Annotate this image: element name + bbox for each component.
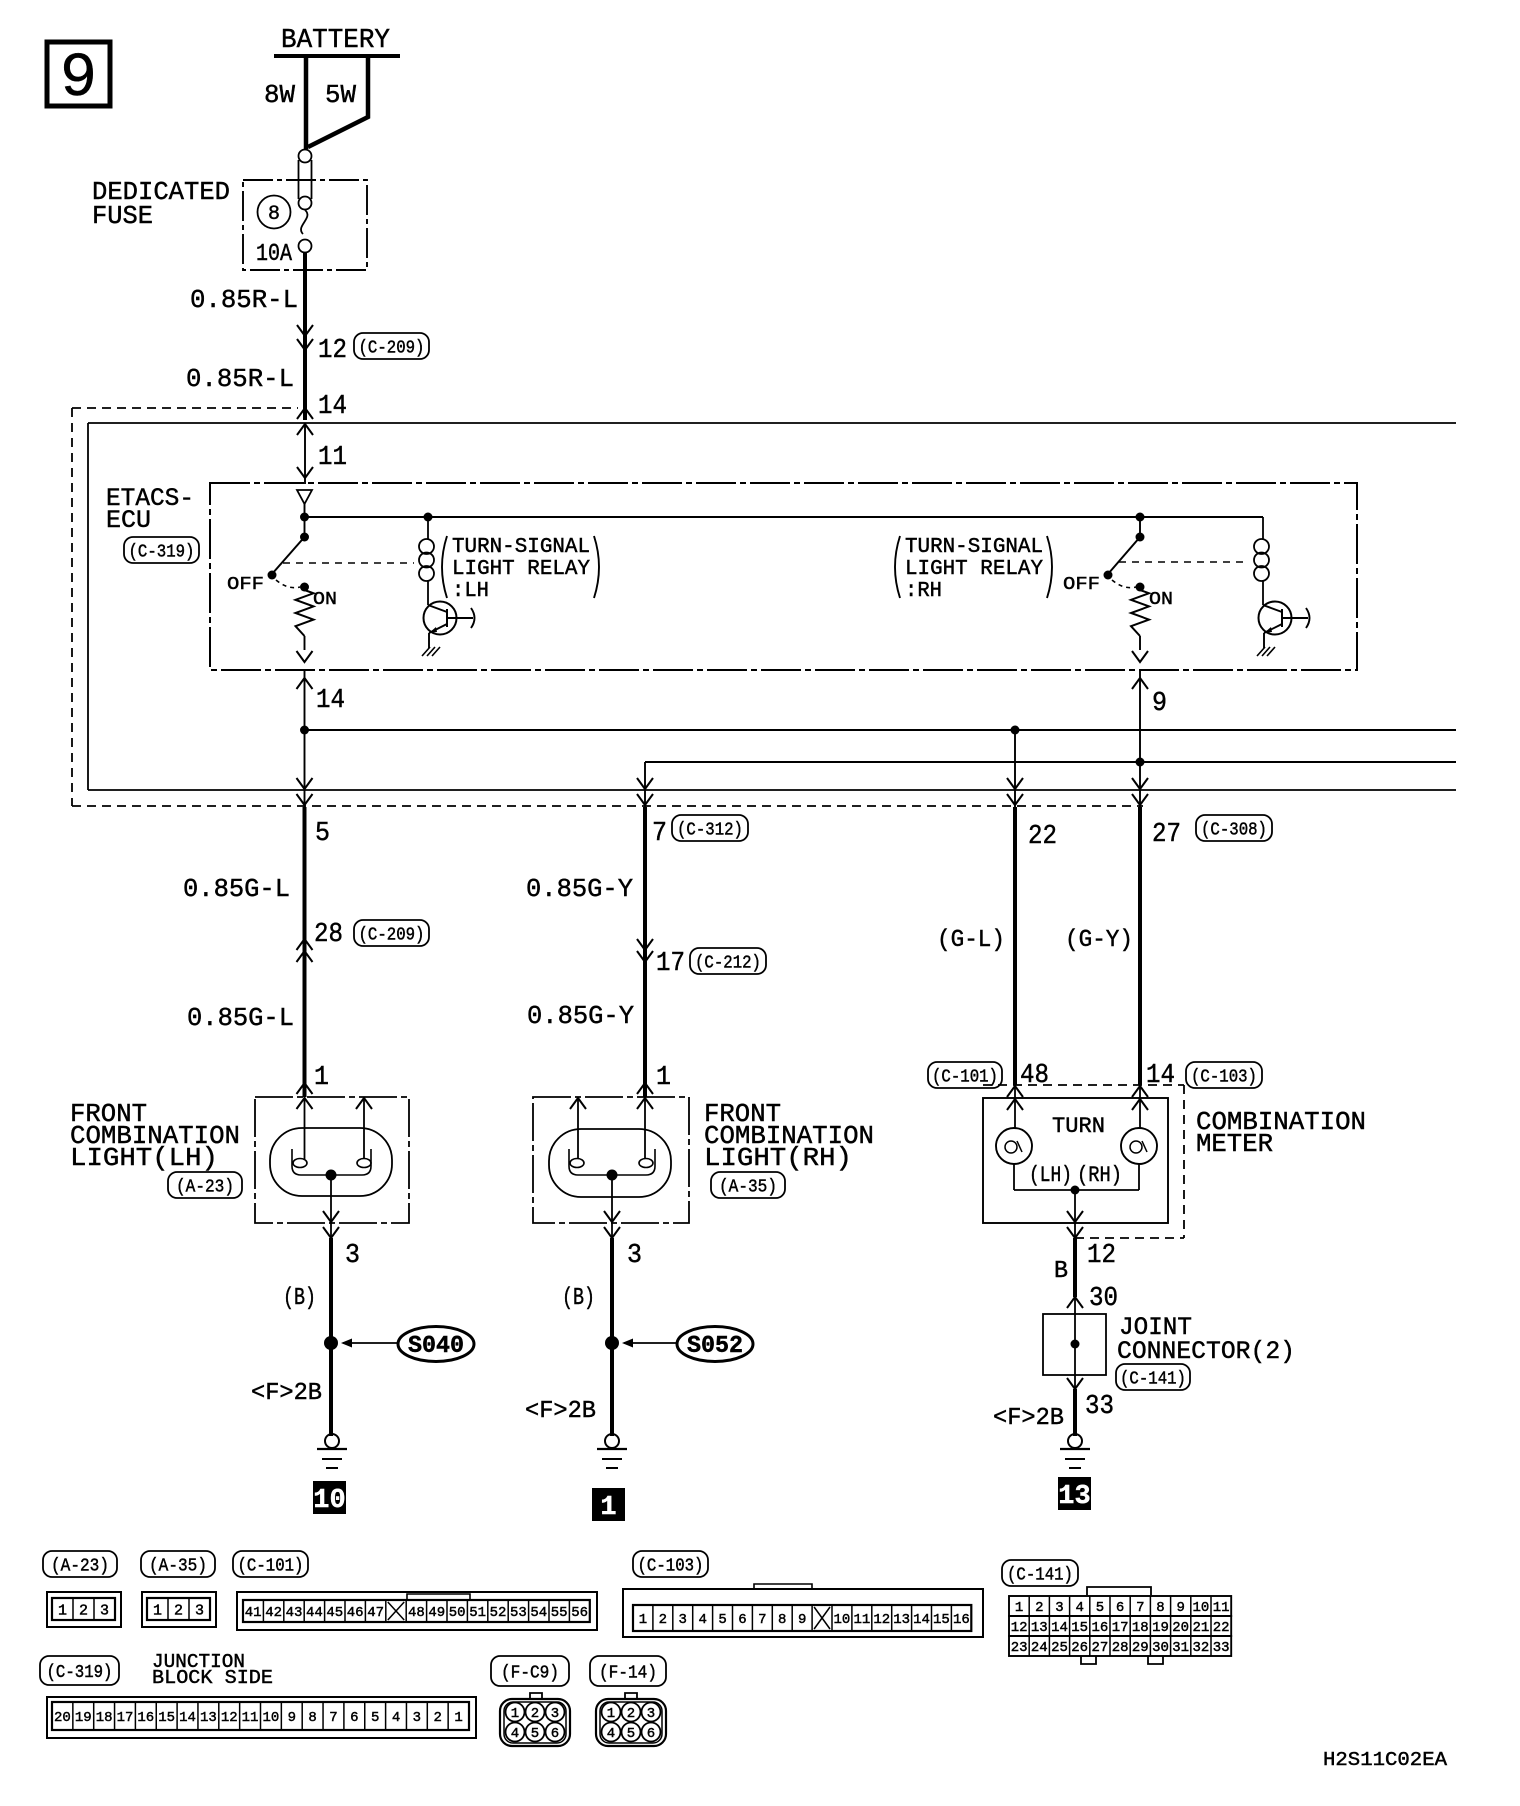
connector label C-319 <box>124 537 199 563</box>
transistor Q LH <box>424 602 475 635</box>
arrow into LH light <box>297 1083 313 1094</box>
wire drop to pin 5 <box>297 730 313 807</box>
wire (B) LH ground lead <box>329 1238 333 1436</box>
svg-text:7: 7 <box>652 819 667 849</box>
label (F)2B RH <box>525 1398 596 1425</box>
svg-text:TURN-SIGNAL: TURN-SIGNAL <box>452 536 590 559</box>
svg-text:12: 12 <box>873 1612 890 1628</box>
svg-text:9: 9 <box>288 1710 296 1726</box>
connector label F-14 <box>590 1656 666 1686</box>
pin 28 <box>314 920 343 950</box>
svg-text:45: 45 <box>326 1605 343 1621</box>
svg-text:B: B <box>1054 1258 1068 1285</box>
label ETACS-ECU <box>106 484 194 535</box>
svg-text:FUSE: FUSE <box>92 201 153 231</box>
svg-text:0.85G-Y: 0.85G-Y <box>526 874 633 904</box>
pin 12 <box>318 336 347 366</box>
svg-text:51: 51 <box>469 1605 486 1621</box>
svg-text:(C-141): (C-141) <box>1120 1369 1186 1389</box>
svg-text:5: 5 <box>627 1726 635 1742</box>
connector view A-35 <box>142 1592 216 1627</box>
wire emitter to ground LH <box>428 633 430 648</box>
relay coil LH <box>427 516 429 518</box>
label TURN-SIGNAL LIGHT RELAY RH <box>895 536 1052 603</box>
svg-text:4: 4 <box>392 1710 400 1726</box>
internal ground RH <box>1257 647 1265 656</box>
fuse element <box>299 150 312 253</box>
connector label A-23 bottom <box>43 1551 117 1577</box>
connector label C-308 <box>1196 815 1272 841</box>
svg-text:29: 29 <box>1132 1640 1149 1656</box>
wire lamp RH to pin 3 <box>604 1175 620 1240</box>
label OFF RH <box>1063 575 1100 595</box>
svg-text:OFF: OFF <box>1063 575 1100 595</box>
bus wire 1 <box>305 729 1457 731</box>
arrows into meter pin 14 <box>1132 1085 1148 1128</box>
svg-text:1: 1 <box>607 1706 615 1722</box>
fuse box <box>243 180 367 270</box>
ETACS pin 11 entry triangle <box>297 490 312 504</box>
connector view C-101 <box>237 1592 597 1630</box>
svg-text:5: 5 <box>1096 1600 1104 1616</box>
label (B) RH <box>562 1285 595 1312</box>
svg-text:12: 12 <box>1087 1241 1116 1271</box>
svg-text:14: 14 <box>179 1710 196 1726</box>
svg-text:(C-209): (C-209) <box>359 925 425 945</box>
label (G-L) <box>937 927 1005 954</box>
label 0.85G-L upper <box>183 874 290 904</box>
svg-text:24: 24 <box>1031 1640 1048 1656</box>
svg-text:(C-319): (C-319) <box>47 1663 113 1683</box>
pin 11 ETACS in <box>318 443 347 473</box>
svg-text:54: 54 <box>530 1605 547 1621</box>
dashed actuation link RH <box>1119 561 1249 563</box>
connector label C-209 lower <box>354 920 429 946</box>
svg-text:9: 9 <box>60 43 97 114</box>
pin 30 <box>1089 1284 1118 1314</box>
pin 5 <box>315 819 330 849</box>
resistor LH <box>296 590 314 636</box>
svg-text:9: 9 <box>798 1612 806 1628</box>
ETACS-ECU box C-319 <box>210 483 1357 670</box>
svg-text:LIGHT(RH): LIGHT(RH) <box>704 1143 852 1173</box>
pin 9 ETACS out <box>1152 689 1167 719</box>
label TURN-SIGNAL LIGHT RELAY LH <box>442 536 599 603</box>
svg-text:12: 12 <box>1011 1620 1028 1636</box>
svg-text:28: 28 <box>1112 1640 1129 1656</box>
node ON LH <box>300 583 309 592</box>
pin 14 ETACS out <box>316 686 345 716</box>
svg-text:53: 53 <box>510 1605 527 1621</box>
svg-text:3: 3 <box>413 1710 421 1726</box>
label JOINT CONNECTOR (2) <box>1117 1313 1295 1366</box>
svg-text:LIGHT RELAY: LIGHT RELAY <box>452 558 590 581</box>
label B <box>1054 1258 1068 1285</box>
switch RH arm <box>1104 517 1145 580</box>
pin 14 junction block in <box>318 392 347 422</box>
connector view C-103 <box>623 1584 983 1637</box>
lamp bulb RH <box>549 1129 671 1197</box>
svg-text:3: 3 <box>647 1706 655 1722</box>
bus wire 2 <box>645 761 1456 763</box>
ETACS pin 14 exit arrow <box>297 670 313 730</box>
svg-text:9: 9 <box>1152 689 1167 719</box>
pin 27 <box>1152 820 1181 850</box>
connector label F-09 <box>491 1656 569 1686</box>
svg-text:(A-35): (A-35) <box>719 1177 777 1197</box>
svg-text:7: 7 <box>1136 1600 1144 1616</box>
label 0.85G-Y upper <box>526 874 633 904</box>
battery B+ label <box>281 26 390 56</box>
svg-text:6: 6 <box>647 1726 655 1742</box>
node: switch LH common <box>300 504 309 522</box>
junction block dashed outline <box>72 408 1143 806</box>
label (F)2B LH <box>251 1380 322 1407</box>
svg-text:6: 6 <box>350 1710 358 1726</box>
svg-text:33: 33 <box>1213 1640 1230 1656</box>
wire drop to pin 22 <box>1007 730 1023 807</box>
wire battery leg 8W <box>304 56 309 149</box>
svg-text:10: 10 <box>1192 1600 1209 1616</box>
svg-text:3: 3 <box>551 1706 559 1722</box>
svg-text:(C-212): (C-212) <box>695 953 761 973</box>
connector label C-212 <box>690 948 766 974</box>
connector label C-319 bottom <box>40 1656 119 1685</box>
svg-text:1: 1 <box>314 1063 329 1093</box>
wire lamp LH to pin 3 <box>323 1175 339 1240</box>
wire (G-L) <box>1013 807 1017 1085</box>
connector label C-103 bottom <box>633 1551 708 1577</box>
svg-text:2: 2 <box>79 1602 88 1619</box>
svg-text:0.85G-Y: 0.85G-Y <box>527 1001 634 1031</box>
svg-text:0.85G-L: 0.85G-L <box>187 1003 294 1033</box>
svg-text:48: 48 <box>1020 1061 1049 1091</box>
splice node S052 <box>605 1336 619 1350</box>
relay coil RH <box>1262 516 1264 518</box>
svg-text:LIGHT RELAY: LIGHT RELAY <box>905 558 1043 581</box>
connector label A-23 <box>168 1172 242 1198</box>
svg-text:<F>2B: <F>2B <box>993 1405 1064 1432</box>
svg-text:2: 2 <box>1035 1600 1043 1616</box>
svg-text:(A-23): (A-23) <box>51 1556 109 1576</box>
connector view A-23 <box>47 1592 121 1627</box>
label 5W <box>325 80 356 110</box>
ground LH <box>317 1434 347 1468</box>
label 0.85R-L lower <box>186 364 294 394</box>
svg-text:4: 4 <box>607 1726 615 1742</box>
wire drop to pin 7 <box>637 762 653 807</box>
svg-text:48: 48 <box>408 1605 425 1621</box>
label TURN <box>1052 1114 1105 1139</box>
svg-text:(C-308): (C-308) <box>1201 820 1267 840</box>
lamp common node RH <box>607 1170 618 1181</box>
splice node S040 <box>324 1336 338 1350</box>
fuse number circle 8 <box>258 196 291 229</box>
svg-text:(C-103): (C-103) <box>1191 1067 1257 1087</box>
switch LH arm <box>268 517 310 580</box>
svg-text:8W: 8W <box>264 80 295 110</box>
svg-text:15: 15 <box>1071 1620 1088 1636</box>
svg-text:1: 1 <box>511 1706 519 1722</box>
svg-text:11: 11 <box>1213 1600 1230 1616</box>
lamp bulb LH <box>270 1128 392 1196</box>
wire B meter ground lead <box>1073 1238 1077 1436</box>
svg-text:19: 19 <box>75 1710 92 1726</box>
svg-text:14: 14 <box>318 392 347 422</box>
page link 13 <box>1058 1477 1091 1512</box>
connector label C-101 bottom <box>233 1551 308 1577</box>
junction block solid outline <box>88 423 1456 790</box>
svg-text:4: 4 <box>511 1726 519 1742</box>
svg-text:(B): (B) <box>562 1285 595 1312</box>
connector label C-209 <box>354 333 429 359</box>
svg-text:11: 11 <box>853 1612 870 1628</box>
label ON LH <box>313 590 337 610</box>
svg-text:20: 20 <box>1172 1620 1189 1636</box>
arrow into joint connector pin 30 <box>1067 1297 1083 1308</box>
node coil LH tap <box>424 513 433 522</box>
svg-text:26: 26 <box>1071 1640 1088 1656</box>
ground meter <box>1060 1434 1090 1468</box>
svg-text:LIGHT(LH): LIGHT(LH) <box>70 1143 218 1173</box>
svg-text:33: 33 <box>1085 1392 1114 1422</box>
svg-text:44: 44 <box>306 1605 323 1621</box>
svg-text:2: 2 <box>174 1602 183 1619</box>
internal ground LH <box>422 647 430 656</box>
wire resistor to pin 9 arrow <box>1132 636 1148 662</box>
svg-text:16: 16 <box>953 1612 970 1628</box>
svg-text::LH: :LH <box>452 580 489 603</box>
front combination light RH box A-35 <box>533 1097 689 1223</box>
svg-text:(RH): (RH) <box>1077 1163 1122 1188</box>
svg-text:3: 3 <box>345 1241 360 1271</box>
svg-text:(C-103): (C-103) <box>638 1556 704 1576</box>
svg-text:14: 14 <box>316 686 345 716</box>
svg-text:1: 1 <box>454 1710 462 1726</box>
svg-text:30: 30 <box>1152 1640 1169 1656</box>
svg-text:32: 32 <box>1192 1640 1209 1656</box>
connector label C-141 bottom <box>1002 1560 1078 1586</box>
svg-text:4: 4 <box>698 1612 706 1628</box>
svg-text:2: 2 <box>627 1706 635 1722</box>
page link 1 <box>592 1488 625 1523</box>
connector label C-312 <box>672 815 748 841</box>
label (B) LH <box>283 1285 316 1312</box>
svg-text:25: 25 <box>1051 1640 1068 1656</box>
svg-text:3: 3 <box>627 1241 642 1271</box>
svg-text:15: 15 <box>158 1710 175 1726</box>
svg-text:(A-35): (A-35) <box>149 1556 207 1576</box>
connector label C-141 <box>1116 1364 1190 1390</box>
joint connector (2) box C-141 <box>1043 1314 1106 1375</box>
svg-text:4: 4 <box>1075 1600 1083 1616</box>
node bus C <box>1011 726 1020 735</box>
svg-text:0.85R-L: 0.85R-L <box>190 285 298 315</box>
svg-text:7: 7 <box>329 1710 337 1726</box>
arrow out joint connector pin 33 <box>1067 1378 1083 1389</box>
svg-text:56: 56 <box>571 1605 588 1621</box>
svg-text:BLOCK SIDE: BLOCK SIDE <box>152 1667 273 1689</box>
svg-text:14: 14 <box>913 1612 930 1628</box>
svg-text:1: 1 <box>600 1493 616 1523</box>
svg-text:30: 30 <box>1089 1284 1118 1314</box>
splice label S040 <box>398 1327 474 1362</box>
svg-text:5: 5 <box>315 819 330 849</box>
svg-text:6: 6 <box>738 1612 746 1628</box>
svg-text:11: 11 <box>318 443 347 473</box>
connector label C-101 <box>928 1062 1002 1088</box>
turn indicator unit box <box>983 1098 1168 1223</box>
label (F)2B meter <box>993 1405 1064 1432</box>
lamp common node LH <box>326 1170 337 1181</box>
label (G-Y) <box>1065 927 1133 954</box>
splice label S052 <box>677 1327 753 1362</box>
svg-text:13: 13 <box>893 1612 910 1628</box>
wire RH light second terminal <box>570 1097 586 1159</box>
svg-text:20: 20 <box>54 1710 71 1726</box>
label ON RH <box>1149 590 1173 610</box>
svg-text:13: 13 <box>1058 1482 1090 1512</box>
label JUNCTION BLOCK SIDE <box>152 1651 273 1689</box>
ground RH <box>597 1434 627 1468</box>
svg-text:METER: METER <box>1196 1129 1273 1159</box>
svg-text:10: 10 <box>313 1486 345 1516</box>
wire LH light feed <box>297 1097 313 1159</box>
svg-text:5: 5 <box>718 1612 726 1628</box>
connector label A-35 bottom <box>141 1551 215 1577</box>
connector crossing arrows C-209 pin28 <box>297 939 313 962</box>
svg-text:H2S11C02EA: H2S11C02EA <box>1323 1749 1448 1771</box>
svg-text:8: 8 <box>778 1612 786 1628</box>
svg-text:50: 50 <box>449 1605 466 1621</box>
wire (B) RH ground lead <box>610 1238 614 1436</box>
svg-text:(F-14): (F-14) <box>599 1663 657 1683</box>
switch RH dashed throw <box>1112 580 1136 588</box>
svg-text:16: 16 <box>1091 1620 1108 1636</box>
svg-text:23: 23 <box>1011 1640 1028 1656</box>
svg-text:0.85G-L: 0.85G-L <box>183 874 290 904</box>
switch LH dashed throw <box>276 580 300 588</box>
wire (G-Y) <box>1138 807 1142 1085</box>
svg-text:5W: 5W <box>325 80 356 110</box>
svg-text:1: 1 <box>58 1602 67 1619</box>
page link 10 <box>313 1481 346 1516</box>
label OFF LH <box>227 575 264 595</box>
label 8W <box>264 80 295 110</box>
svg-text:ON: ON <box>313 590 337 610</box>
svg-text:(F-C9): (F-C9) <box>501 1663 559 1683</box>
svg-text:12: 12 <box>318 336 347 366</box>
svg-text:9: 9 <box>1176 1600 1184 1616</box>
resistor RH <box>1131 590 1149 636</box>
svg-text:18: 18 <box>1132 1620 1149 1636</box>
svg-text:47: 47 <box>367 1605 384 1621</box>
svg-text:5: 5 <box>531 1726 539 1742</box>
splice pointer arrow S040 <box>341 1339 398 1348</box>
svg-text:10: 10 <box>834 1612 851 1628</box>
svg-text:14: 14 <box>1146 1061 1175 1091</box>
svg-text:19: 19 <box>1152 1620 1169 1636</box>
label FRONT COMBINATION LIGHT (LH) <box>70 1099 240 1173</box>
combination meter dashed outline <box>983 1085 1184 1238</box>
pin 48 <box>1020 1061 1049 1091</box>
svg-text:21: 21 <box>1192 1620 1209 1636</box>
label 0.85G-L lower <box>187 1003 294 1033</box>
connector crossing arrows C-209 pin12 <box>297 325 313 350</box>
dashed actuation link LH <box>283 562 414 564</box>
svg-text:(A-23): (A-23) <box>176 1177 234 1197</box>
pin 14 meter <box>1146 1061 1175 1091</box>
svg-text:1: 1 <box>639 1612 647 1628</box>
svg-text:ECU: ECU <box>106 506 151 535</box>
svg-text:28: 28 <box>314 920 343 950</box>
svg-text:10A: 10A <box>256 241 292 268</box>
wire meter to pin 12 <box>1067 1190 1083 1238</box>
pin 3 LH <box>345 1241 360 1271</box>
label FRONT COMBINATION LIGHT (RH) <box>704 1099 874 1173</box>
svg-text:(G-L): (G-L) <box>937 927 1005 954</box>
svg-text:22: 22 <box>1213 1620 1230 1636</box>
label DEDICATED FUSE <box>92 177 230 231</box>
pin 7 <box>652 819 667 849</box>
svg-text:BATTERY: BATTERY <box>281 26 390 56</box>
svg-text:1: 1 <box>1015 1600 1023 1616</box>
ETACS pin 9 exit arrow <box>1132 670 1148 762</box>
connector view C-141 <box>1009 1587 1231 1664</box>
meter internal common wire <box>1014 1164 1139 1195</box>
svg-text:(C-319): (C-319) <box>129 542 195 562</box>
svg-text:<F>2B: <F>2B <box>525 1398 596 1425</box>
transistor Q RH <box>1259 602 1310 635</box>
svg-text:2: 2 <box>659 1612 667 1628</box>
svg-text:CONNECTOR(2): CONNECTOR(2) <box>1117 1337 1295 1366</box>
label (LH) (RH) <box>1029 1163 1122 1188</box>
pin 1 RH light <box>656 1063 671 1093</box>
page number box 9 <box>47 42 110 114</box>
front combination light LH box A-23 <box>255 1097 409 1223</box>
svg-text:8: 8 <box>308 1710 316 1726</box>
label 0.85G-Y lower <box>527 1001 634 1031</box>
label 0.85R-L upper <box>190 285 298 315</box>
drawing number H2S11C02EA <box>1323 1749 1448 1771</box>
svg-text:12: 12 <box>221 1710 238 1726</box>
svg-text:<F>2B: <F>2B <box>251 1380 322 1407</box>
battery bus bar <box>274 54 400 58</box>
svg-text:2: 2 <box>531 1706 539 1722</box>
svg-text:3: 3 <box>100 1602 109 1619</box>
svg-text:7: 7 <box>758 1612 766 1628</box>
wire drop to pin 27 <box>1132 762 1148 807</box>
node: switch RH common <box>1136 513 1145 522</box>
arrow into RH light <box>637 1083 653 1094</box>
svg-text:(C-312): (C-312) <box>677 820 743 840</box>
svg-text:18: 18 <box>96 1710 113 1726</box>
svg-text:OFF: OFF <box>227 575 264 595</box>
splice pointer arrow S052 <box>622 1339 677 1348</box>
svg-text:0.85R-L: 0.85R-L <box>186 364 294 394</box>
pin 1 LH light <box>314 1063 329 1093</box>
svg-text:ON: ON <box>1149 590 1173 610</box>
internal supply rail wire <box>305 516 1264 518</box>
svg-text:43: 43 <box>286 1605 303 1621</box>
pin 17 <box>656 949 685 979</box>
svg-text:5: 5 <box>371 1710 379 1726</box>
svg-text:14: 14 <box>1051 1620 1068 1636</box>
wire battery leg 5W <box>308 56 368 147</box>
pin 33 <box>1085 1392 1114 1422</box>
wire into junction block with arrows <box>297 408 313 484</box>
svg-text::RH: :RH <box>905 580 942 603</box>
